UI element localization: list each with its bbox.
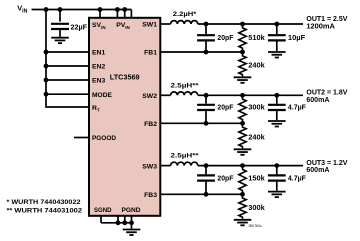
svg-text:* WURTH 7440430022: * WURTH 7440430022 <box>7 199 81 206</box>
svg-text:510k: 510k <box>248 35 265 42</box>
svg-text:EN2: EN2 <box>92 64 105 71</box>
svg-text:FB3: FB3 <box>144 192 157 199</box>
svg-text:FB1: FB1 <box>144 50 157 57</box>
svg-text:OUT2 = 1.8V: OUT2 = 1.8V <box>306 90 347 97</box>
svg-text:10µF: 10µF <box>288 35 306 42</box>
svg-text:600mA: 600mA <box>306 97 329 104</box>
svg-text:300k: 300k <box>248 205 265 212</box>
svg-text:4.7µF: 4.7µF <box>288 175 307 182</box>
svg-text:2.5µH**: 2.5µH** <box>171 153 200 160</box>
svg-text:2.5µH**: 2.5µH** <box>171 82 200 89</box>
svg-text:SW3: SW3 <box>142 163 157 170</box>
svg-text:PGND: PGND <box>122 207 141 214</box>
svg-text:20pF: 20pF <box>217 175 234 182</box>
svg-text:SGND: SGND <box>94 207 112 214</box>
svg-text:** WURTH 744031002: ** WURTH 744031002 <box>7 208 83 215</box>
svg-text:240k: 240k <box>248 134 265 141</box>
svg-text:LTC3569: LTC3569 <box>110 72 140 81</box>
svg-text:EN3: EN3 <box>92 78 105 85</box>
svg-text:22µF: 22µF <box>71 24 88 31</box>
svg-text:300k: 300k <box>248 105 265 112</box>
svg-text:20pF: 20pF <box>217 35 234 42</box>
svg-text:PGOOD: PGOOD <box>92 135 116 142</box>
svg-text:240k: 240k <box>248 63 265 70</box>
svg-text:1200mA: 1200mA <box>306 23 335 30</box>
svg-text:EN1: EN1 <box>92 50 105 57</box>
svg-text:MODE: MODE <box>92 92 112 99</box>
svg-text:SW1: SW1 <box>142 22 157 29</box>
svg-text:3569 TA01a: 3569 TA01a <box>249 224 263 228</box>
svg-text:4.7µF: 4.7µF <box>288 105 307 112</box>
svg-text:OUT1 = 2.5V: OUT1 = 2.5V <box>306 16 347 23</box>
svg-text:OUT3 = 1.2V: OUT3 = 1.2V <box>306 160 347 167</box>
svg-text:150k: 150k <box>248 175 265 182</box>
svg-text:SW2: SW2 <box>142 93 157 100</box>
svg-text:20pF: 20pF <box>217 105 234 112</box>
svg-text:600mA: 600mA <box>306 167 329 174</box>
svg-text:2.2µH*: 2.2µH* <box>173 11 197 18</box>
svg-text:FB2: FB2 <box>144 121 157 128</box>
